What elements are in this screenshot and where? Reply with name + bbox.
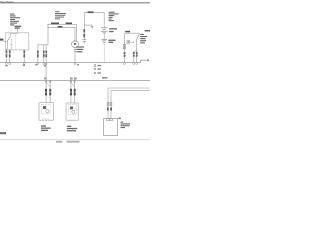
AC wire 1 from right edge [108,88,150,118]
ignition switch [137,34,140,39]
fuel injection text block [55,11,66,19]
AC wire 2 from right edge [111,91,150,119]
relay internal jog [10,33,17,37]
ground label [108,40,115,41]
wire W4 [38,24,48,62]
bottom caption [56,141,63,143]
legend [94,65,96,67]
connector circles on bus1 [6,63,138,65]
wire W2 below box [9,49,11,62]
wire W1 below box [5,49,7,62]
inline connector on wire C [83,29,85,32]
wire A labels [43,51,45,54]
bus 1 [0,62,141,64]
AC compressor box [104,118,118,135]
switch wire labels [133,52,135,54]
wire W3 labels [23,51,25,54]
A4 pin label [119,118,121,120]
wire B labels [45,51,47,54]
pin labels below bus1 [5,64,79,66]
wire C WHT label [88,11,94,13]
wire B BLK/WHT label [58,26,63,28]
main fuse block text [109,12,119,22]
right text block [140,34,147,43]
pin label left of box [0,39,3,41]
fuse feed line right [125,33,140,34]
wire A WHT label [51,23,59,25]
label on fuse feed [125,31,130,33]
wire W4 labels [37,51,39,54]
ground at wire C [82,39,86,41]
relay2 wire b [74,80,76,103]
bus 1 continuation arrow [141,60,148,62]
connector rects on AC wires [107,103,109,106]
relay box 1 [39,103,54,121]
pin ticks below left box [6,50,25,51]
AC wire labels [107,107,109,110]
left bottom note [0,132,6,134]
wire C: battery feed top [84,13,104,40]
wire W2 labels [9,51,11,54]
branch arrow to next circuit [84,24,92,26]
wire W3 [23,49,25,62]
relay switch [8,37,11,41]
bus 2 [0,79,150,81]
wire D labels [124,52,126,54]
wire A label 2 [66,23,72,25]
relay box 2 [66,103,78,120]
AC text right [121,122,131,129]
battery [101,28,108,33]
connector on wire D [124,44,126,46]
splice diagonal [43,55,47,57]
pump ground lead [74,48,76,63]
label above bus2 right [102,77,108,78]
wire D down from feed corner [124,33,126,62]
wire B: pump return [45,45,47,103]
left fuse description text block [10,14,20,26]
wire W1 labels [6,51,8,54]
bus2 wire labels above [44,77,76,79]
battery label [109,28,117,29]
relay2 text below [67,126,77,132]
wire A: pump feed [43,45,45,63]
bottom rule [0,138,150,141]
left relay box [5,33,29,50]
wire stub into left box [17,29,19,33]
wire below ground [103,44,105,62]
mini fuse box [127,40,130,44]
fuel pump motor [72,41,79,48]
relay1 text below [41,125,51,131]
fuel pump label [76,46,84,52]
relay1 wire b [49,80,51,102]
ground G100 [103,33,105,39]
label above left box [15,26,22,27]
relay1 wire a [45,81,47,83]
title rule [0,1,150,4]
relay2 wire a [70,80,72,103]
svg-text:Theory of Operation: Theory of Operation [0,0,14,4]
